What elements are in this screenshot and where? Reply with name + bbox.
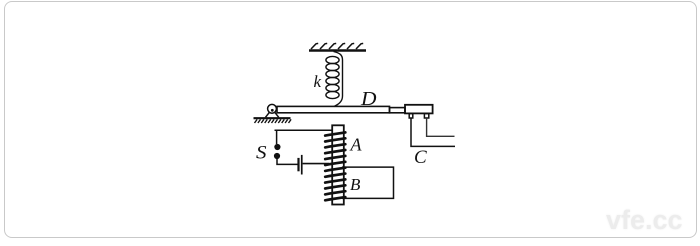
lever D (277, 106, 405, 112)
switch S terminal dots (274, 144, 281, 159)
ceiling support (309, 43, 366, 50)
svg-text:D: D (360, 89, 377, 110)
wire: vertical from top wire to switch (276, 130, 278, 144)
svg-text:B: B (350, 175, 361, 194)
coil winding turns (325, 132, 345, 200)
battery (297, 155, 302, 175)
iron core (332, 125, 344, 204)
svg-text:k: k (314, 72, 322, 91)
wire: battery to coil (303, 163, 329, 165)
wire from left terminal down and right (411, 118, 455, 146)
wire: switch to battery (277, 159, 298, 165)
contact terminal posts (409, 114, 429, 118)
pivot fulcrum (266, 104, 279, 117)
svg-text:C: C (414, 147, 427, 168)
secondary circuit loop of winding B (342, 167, 394, 198)
contact block at right end of lever (405, 105, 433, 114)
ground hatch under pivot (254, 118, 292, 123)
svg-text:A: A (350, 135, 363, 155)
wire top: switch to coil (275, 129, 333, 131)
wire from right terminal down and right (427, 118, 455, 136)
svg-text:S: S (256, 143, 267, 164)
spring k (326, 52, 343, 107)
